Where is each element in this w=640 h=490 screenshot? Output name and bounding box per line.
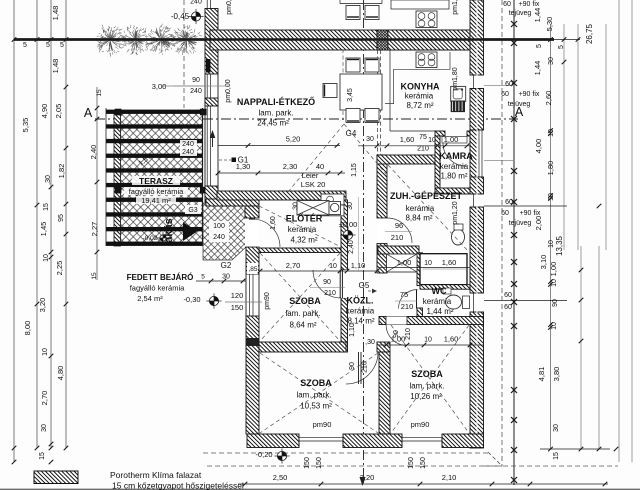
svg-text:26,75: 26,75: [585, 23, 594, 44]
svg-text:1,80: 1,80: [546, 161, 555, 176]
svg-text:15: 15: [553, 452, 560, 460]
wall szoba8.64 south (y342): [259, 342, 346, 352]
svg-text:96: 96: [395, 221, 403, 230]
svg-text:A: A: [84, 106, 93, 120]
svg-text:60: 60: [503, 1, 511, 8]
svg-text:SZOBA: SZOBA: [289, 296, 321, 306]
svg-text:pm90: pm90: [313, 420, 332, 429]
svg-text:30: 30: [293, 202, 300, 210]
dim line G4 row y143-150: [358, 145, 470, 147]
living room sideboard pair: [321, 194, 344, 205]
trees row: [96, 25, 127, 57]
wc north wall: [420, 285, 470, 290]
svg-text:5: 5: [201, 274, 205, 281]
eloter box with circle: [329, 202, 341, 215]
dining table: [340, 74, 382, 110]
shower west stub: [417, 253, 423, 286]
svg-text:1,44: 1,44: [533, 61, 542, 76]
svg-text:G5: G5: [359, 281, 370, 290]
wall zuh north (y155): [377, 155, 440, 164]
windows in east wall frame lines: [470, 74, 484, 76]
svg-text:2,50: 2,50: [273, 473, 288, 482]
legend swatch porotherm: [34, 471, 78, 484]
terrace lintel labels 240: [180, 140, 197, 156]
svg-text:A: A: [515, 105, 524, 119]
west wall pier south: [205, 186, 218, 202]
dim line 1.30/2.30/40: [218, 172, 345, 174]
dining chairs: [346, 58, 360, 72]
svg-text:G1: G1: [238, 156, 249, 165]
KOZL wardrobe with X: [387, 254, 418, 272]
szoba divider wall: [379, 352, 390, 434]
svg-text:5: 5: [558, 45, 565, 49]
svg-text:G3: G3: [188, 207, 197, 214]
svg-text:75: 75: [400, 290, 408, 299]
svg-text:2,40: 2,40: [348, 240, 355, 254]
svg-text:10,53 m²: 10,53 m²: [300, 402, 332, 411]
section line vertical: [363, 0, 365, 483]
svg-text:8,84 m²: 8,84 m²: [405, 214, 432, 223]
svg-text:5,30: 5,30: [545, 17, 554, 32]
svg-text:pm0,0: pm0,0: [226, 0, 233, 15]
svg-text:+90 fix: +90 fix: [519, 91, 540, 98]
dashed eaves line south: [203, 452, 490, 454]
svg-text:10: 10: [43, 254, 50, 262]
svg-text:lam. park.: lam. park.: [258, 109, 293, 118]
svg-text:TERASZ: TERASZ: [139, 176, 173, 186]
svg-text:90: 90: [393, 330, 400, 338]
svg-text:pm0,00: pm0,00: [225, 79, 232, 102]
svg-text:lam. park.: lam. park.: [409, 382, 444, 391]
neighbor unit furniture top strip: [391, 0, 449, 9]
svg-text:lakás: lakás: [163, 218, 175, 246]
kamra shelf: [442, 137, 467, 144]
svg-text:LSK 20: LSK 20: [301, 180, 326, 189]
party wall pillar crosshatched: [377, 30, 388, 50]
svg-text:19,41 m²: 19,41 m²: [141, 196, 171, 205]
svg-text:kerámia: kerámia: [406, 204, 435, 213]
svg-text:NAPPALI-ÉTKEZŐ: NAPPALI-ÉTKEZŐ: [237, 96, 315, 107]
svg-text:8,14 m²: 8,14 m²: [347, 317, 374, 326]
svg-text:3,10: 3,10: [539, 255, 548, 270]
terrace left edge beam: [114, 110, 121, 246]
shower niche outline: [420, 254, 467, 285]
heavy boundary line over walls: [14, 38, 554, 41]
dashed plot line west: [183, 0, 185, 108]
svg-text:10: 10: [42, 348, 49, 356]
chair west of table: [323, 84, 337, 98]
svg-text:15 cm kőzetgyapot hőszigetelés: 15 cm kőzetgyapot hőszigeteléssel: [112, 481, 244, 490]
kitchen dark appliance block: [451, 101, 465, 113]
svg-text:5,35: 5,35: [21, 118, 30, 133]
wardrobe wall KOZL north: [378, 246, 419, 254]
svg-text:210: 210: [417, 146, 429, 153]
kitchen floor boundary lines: [389, 49, 391, 131]
svg-text:10: 10: [548, 240, 555, 248]
svg-text:4,80: 4,80: [56, 366, 65, 381]
G4 beam dashed lines: [377, 50, 379, 155]
svg-text:30: 30: [548, 57, 555, 65]
svg-text:30: 30: [41, 424, 48, 432]
kamra north wall parts: [435, 131, 445, 136]
wall south of KOZL/WC (y316): [379, 317, 484, 325]
svg-text:90: 90: [323, 279, 331, 286]
svg-text:100: 100: [213, 223, 225, 230]
svg-text:90: 90: [552, 299, 559, 307]
svg-text:210: 210: [391, 233, 404, 242]
svg-text:1,44 m²: 1,44 m²: [426, 307, 453, 316]
svg-text:WC: WC: [432, 286, 447, 296]
svg-text:8,72 m²: 8,72 m²: [406, 101, 433, 110]
svg-text:1,00: 1,00: [397, 258, 412, 267]
porch edge band vertical (entry west wall): [245, 206, 259, 218]
svg-text:-0,20: -0,20: [255, 450, 272, 459]
svg-text:210: 210: [324, 290, 336, 297]
svg-text:pm90: pm90: [411, 420, 430, 429]
svg-text:fagyálló kerámia: fagyálló kerámia: [129, 187, 184, 196]
svg-text:5: 5: [60, 42, 64, 49]
svg-text:15: 15: [43, 203, 50, 211]
frame bottom line: [0, 488, 640, 490]
wall living south: [217, 191, 346, 200]
svg-text:2,54 m²: 2,54 m²: [137, 294, 163, 303]
east wall insulation separator: [476, 0, 478, 448]
svg-text:Leier: Leier: [302, 171, 319, 180]
terrace crosshatch field: [114, 110, 202, 246]
heavy boundary line: [14, 38, 554, 41]
section line A-A horizontal: [95, 118, 518, 120]
szoba divider wall corner: [377, 342, 390, 352]
svg-text:2,70: 2,70: [40, 391, 49, 406]
zuh-gepeszet toilet: [452, 229, 465, 245]
kitchen sink unit: [451, 86, 466, 101]
svg-text:-0,30: -0,30: [183, 295, 200, 304]
svg-text:10,26 m²: 10,26 m²: [410, 392, 442, 401]
svg-text:2,00: 2,00: [534, 216, 543, 231]
svg-text:60: 60: [504, 304, 512, 311]
dim extension line x358.6: [358, 197, 360, 272]
svg-text:2,25: 2,25: [55, 261, 64, 276]
svg-text:pm1,8: pm1,8: [452, 0, 459, 15]
level marker -0.45: [191, 12, 200, 21]
svg-text:KONYHA: KONYHA: [400, 82, 440, 92]
terrace room label: [124, 176, 188, 205]
svg-text:4,32 m²: 4,32 m²: [290, 236, 317, 245]
svg-text:kerámia: kerámia: [423, 297, 452, 306]
party wall north right part: [388, 30, 470, 50]
svg-text:pm1,80: pm1,80: [452, 67, 459, 90]
stove konyha: [416, 52, 437, 68]
svg-text:15: 15: [96, 89, 103, 97]
svg-text:24,45 m²: 24,45 m²: [257, 119, 289, 128]
svg-text:240: 240: [190, 88, 202, 95]
dim 90/240 west: [162, 85, 205, 87]
svg-text:lam. park.: lam. park.: [296, 391, 331, 400]
kamra west wall: [435, 136, 440, 188]
svg-text:10: 10: [548, 193, 555, 201]
svg-text:1,60: 1,60: [400, 135, 415, 144]
west window szoba 8.64: [245, 274, 247, 316]
svg-text:1,44: 1,44: [533, 8, 542, 23]
svg-text:8,00: 8,00: [23, 321, 32, 336]
porch door size labels 100/240: [209, 221, 229, 242]
svg-text:10: 10: [424, 337, 432, 344]
roof corner dashes SE: [488, 452, 502, 466]
kitchen counter outline: [385, 52, 450, 104]
svg-text:10: 10: [551, 322, 558, 330]
svg-text:210: 210: [401, 302, 414, 311]
svg-text:pm1,20: pm1,20: [452, 201, 459, 224]
door kamra: [443, 143, 466, 166]
svg-text:40: 40: [316, 162, 324, 171]
insulation dark strip: [206, 59, 211, 73]
svg-text:1,60: 1,60: [442, 258, 457, 267]
svg-text:lam. park.: lam. park.: [285, 309, 320, 318]
svg-text:1,60: 1,60: [270, 216, 277, 230]
porch edge band horizontal: [206, 199, 259, 206]
dim row y345 szoba10.26: [379, 344, 483, 346]
party wall north: [210, 30, 470, 50]
svg-text:1,48: 1,48: [51, 59, 60, 74]
svg-text:ZUH.-GÉPÉSZET: ZUH.-GÉPÉSZET: [390, 191, 463, 201]
svg-text:10: 10: [329, 263, 337, 270]
west sill leader over window: [174, 85, 229, 87]
up arrow at west window: [212, 134, 214, 147]
level marker terrace: [160, 235, 166, 241]
dining dashed projection x343: [342, 49, 344, 73]
terrace posts: [115, 109, 122, 116]
svg-text:,30: ,30: [45, 175, 52, 185]
svg-text:15: 15: [91, 272, 98, 280]
svg-text:30: 30: [347, 202, 354, 210]
bottom dimension line: [238, 483, 608, 485]
svg-text:210: 210: [405, 328, 412, 340]
level marker +-0.00 eloter: [343, 230, 352, 239]
G3 label terrace edge: [185, 205, 201, 214]
terrace deck joists: [106, 110, 203, 114]
G1 marker: [219, 159, 231, 161]
svg-text:1,15: 1,15: [351, 163, 358, 177]
svg-text:kerámia: kerámia: [405, 92, 434, 101]
dim row y271 szoba8.64: [260, 270, 377, 272]
svg-text:5: 5: [23, 42, 27, 49]
left dimension ticks: [12, 37, 17, 42]
svg-text:kerámia: kerámia: [288, 225, 317, 234]
door szoba 10.53: [346, 352, 378, 384]
west wall mullion block: [205, 98, 218, 106]
door wc 75/210: [399, 290, 418, 309]
west glazed wall window lines: [206, 0, 208, 9]
dashed roof line east: [501, 0, 503, 466]
svg-text:240: 240: [182, 141, 194, 148]
wall east exterior segments: [470, 0, 484, 75]
wall west upper (nappali west): [205, 9, 218, 75]
wall elotere-KOZL west (x341): [341, 200, 348, 270]
svg-text:210: 210: [362, 361, 369, 373]
svg-text:150: 150: [316, 457, 323, 469]
wall center interior (x377): [377, 155, 387, 218]
front entry door gap and arc: [245, 218, 259, 247]
svg-text:3,80: 3,80: [552, 367, 561, 382]
svg-text:fagyálló kerámia: fagyálló kerámia: [130, 284, 185, 293]
south exterior wall segments: [247, 434, 299, 448]
eloter wardrobe with X: [297, 201, 329, 216]
svg-text:75: 75: [419, 134, 427, 141]
partition eloter/szoba: [259, 248, 341, 253]
svg-text:1,82: 1,82: [57, 164, 66, 179]
wc toilet: [446, 295, 462, 309]
right dimension chain lines: [513, 0, 515, 485]
svg-text:kerámia: kerámia: [346, 307, 375, 316]
svg-text:SZOBA: SZOBA: [300, 378, 332, 388]
svg-text:10: 10: [428, 137, 436, 144]
svg-text:pm90: pm90: [264, 292, 271, 310]
svg-text:+90 fix: +90 fix: [519, 1, 540, 8]
svg-text:150: 150: [408, 457, 415, 469]
svg-text:2,40: 2,40: [89, 145, 98, 160]
svg-text:4,90: 4,90: [40, 104, 49, 119]
svg-text:120: 120: [231, 291, 244, 300]
svg-text:1,60: 1,60: [444, 335, 459, 344]
svg-text:30: 30: [366, 136, 374, 143]
svg-text:-0,02: -0,02: [143, 235, 158, 242]
pier label .85: [247, 263, 258, 274]
svg-text:,30: ,30: [365, 339, 375, 346]
dark block on west wall: [247, 338, 259, 346]
svg-text:3,20: 3,20: [38, 298, 47, 313]
wc west wall with door gap: [417, 308, 423, 317]
svg-text:240: 240: [213, 234, 225, 241]
svg-text:2,30: 2,30: [283, 162, 298, 171]
door szoba 8.64: [341, 270, 348, 298]
right horizontal leader lines: [484, 39, 554, 41]
svg-text:150: 150: [304, 457, 311, 469]
svg-text:1,45: 1,45: [39, 222, 48, 237]
dim line 5.20 living: [218, 145, 340, 147]
door zuh-gepeszet 96/210: [377, 218, 387, 244]
svg-text:kerámia: kerámia: [440, 162, 469, 171]
right chain ticks: [511, 21, 517, 27]
svg-text:KÖZL.: KÖZL.: [347, 296, 374, 306]
svg-text:4,81: 4,81: [537, 367, 546, 382]
entrance arrow triangle: [183, 222, 197, 241]
svg-text:tejüveg: tejüveg: [509, 220, 532, 227]
svg-text:G2: G2: [221, 261, 232, 270]
svg-text:ELŐTÉR: ELŐTÉR: [286, 213, 323, 224]
svg-text:5,20: 5,20: [286, 135, 301, 144]
svg-text:1,48: 1,48: [51, 6, 60, 21]
svg-text:5: 5: [46, 42, 50, 49]
svg-text:-0,45: -0,45: [171, 12, 190, 21]
svg-text:60: 60: [504, 292, 512, 299]
svg-text:90: 90: [349, 362, 356, 370]
svg-text:2,60: 2,60: [544, 91, 553, 106]
level marker -0.20 south: [277, 451, 286, 460]
svg-text:2,10: 2,10: [442, 473, 457, 482]
svg-text:60: 60: [505, 199, 513, 206]
svg-text:90: 90: [192, 77, 200, 84]
svg-text:,85: ,85: [248, 266, 257, 273]
door szoba 10.26: [386, 325, 407, 346]
svg-text:5: 5: [536, 44, 543, 48]
south windows frame lines: [298, 434, 300, 448]
kamra south wall: [435, 188, 470, 194]
svg-text:1,80 m²: 1,80 m²: [440, 172, 467, 181]
svg-text:2,27: 2,27: [90, 222, 99, 237]
svg-text:240: 240: [190, 0, 202, 6]
svg-text:10: 10: [551, 279, 558, 287]
svg-text:10: 10: [548, 129, 555, 137]
svg-text:60: 60: [505, 81, 513, 88]
upper dim row y267 KOZL/WC: [379, 267, 470, 269]
svg-text:3,00: 3,00: [152, 82, 167, 91]
left dimension chain lines: [13, 0, 15, 462]
svg-text:150: 150: [420, 457, 427, 469]
svg-text:95: 95: [58, 214, 65, 222]
svg-text:tejüveg: tejüveg: [509, 10, 532, 17]
svg-text:150: 150: [231, 303, 244, 312]
wall west south wing: [246, 247, 259, 274]
svg-text:3,45: 3,45: [347, 88, 354, 102]
covered entry paving crosshatch: [203, 203, 246, 260]
svg-text:10: 10: [424, 260, 432, 267]
svg-text:4,00: 4,00: [534, 139, 543, 154]
svg-text:30: 30: [553, 424, 560, 432]
svg-text:Porotherm Klíma falazat: Porotherm Klíma falazat: [110, 470, 202, 480]
svg-text:2,05: 2,05: [54, 104, 63, 119]
svg-text:1,00: 1,00: [444, 135, 459, 144]
svg-text:1,10: 1,10: [351, 261, 366, 270]
svg-text:15: 15: [39, 452, 46, 460]
svg-text:SZOBA: SZOBA: [411, 369, 443, 379]
wc washbasin: [443, 288, 451, 294]
svg-text:KAMRA: KAMRA: [439, 151, 473, 161]
level marker -0.30 porch: [209, 296, 218, 305]
svg-text:13,35: 13,35: [555, 235, 564, 256]
svg-text:G4: G4: [346, 129, 357, 138]
svg-text:FEDETT BEJÁRÓ: FEDETT BEJÁRÓ: [127, 273, 194, 282]
svg-text:1,00: 1,00: [549, 262, 558, 277]
room diagonals dashed: [288, 124, 344, 192]
svg-text:240: 240: [182, 149, 194, 156]
svg-text:2,70: 2,70: [286, 261, 301, 270]
svg-text:8,64 m²: 8,64 m²: [289, 321, 316, 330]
